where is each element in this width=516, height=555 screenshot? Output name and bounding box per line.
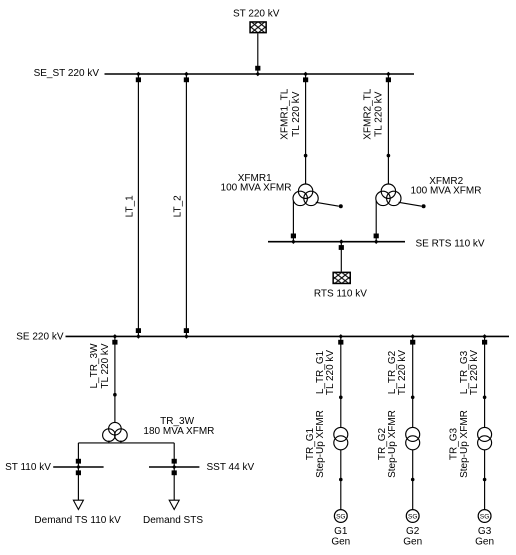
terminal square grid at SE_ST [255, 66, 260, 71]
terminal square Demand STS feeder [172, 470, 177, 475]
wire TR_3W LV/MV elbows [78, 441, 174, 468]
label TR_G1 Step-Up XFMR [305, 410, 326, 478]
svg-text:Gen: Gen [475, 537, 494, 548]
label G1 Gen [331, 526, 350, 548]
line L_TR_G1 wire [340, 336, 342, 397]
line L_TR_G3 wire [484, 336, 486, 397]
svg-text:XFMR2_TL: XFMR2_TL [362, 88, 373, 140]
svg-text:SE_ST 220 kV: SE_ST 220 kV [34, 68, 100, 79]
node grid on busbar SE_ST [256, 72, 261, 77]
svg-text:Step-Up XFMR: Step-Up XFMR [459, 410, 470, 478]
node XFMR2_TL to transformer [387, 154, 391, 158]
terminal square TR_3W at SST 44 [172, 459, 177, 464]
line LT_1 wire [137, 74, 139, 336]
line L_TR_3W wire [114, 336, 116, 394]
busbar SE 220 kV [16, 332, 509, 343]
terminal square LT_1 at SE_ST [136, 77, 141, 82]
wire to Demand STS [173, 467, 175, 500]
tertiary stub XFMR1 [316, 202, 343, 208]
busbar ST 110 kV [5, 462, 103, 473]
load Demand STS arrow [169, 500, 179, 509]
node LT_2 on SE_ST [184, 72, 189, 77]
wire to Demand TS 110 kV [77, 467, 79, 500]
node TR_G1 to G1 [339, 478, 343, 482]
svg-text:SG: SG [336, 514, 345, 521]
transformer TR_3W 180 MVA three-winding [103, 422, 128, 441]
svg-text:Demand TS 110 kV: Demand TS 110 kV [34, 515, 121, 526]
node TR_G3 to G3 [483, 478, 487, 482]
terminal square XFMR1_TL at SE_ST [303, 77, 308, 82]
wire node to generator G1 [340, 480, 342, 510]
load Demand TS 110 kV arrow [73, 500, 83, 509]
label TR_3W value [143, 416, 214, 437]
svg-text:TL 220 kV: TL 220 kV [469, 350, 480, 396]
wire XFMR1 LV to SE RTS [292, 201, 294, 242]
label G2 Gen [403, 526, 422, 548]
label TR_G3 Step-Up XFMR [449, 410, 470, 478]
node XFMR1_TL on SE_ST [303, 72, 308, 77]
external grid ST 220 kV [233, 9, 280, 33]
wire node to TR_G3 [484, 397, 486, 427]
line L_TR_G2 wire [412, 336, 414, 397]
node LT_2 on SE 220 [184, 334, 189, 339]
label L_TR_3W TL 220 kV [89, 343, 111, 389]
generator G3 SG [478, 510, 491, 523]
node L_TR_3W to TR_3W [113, 393, 117, 397]
wire TR_G1 to node [340, 450, 342, 480]
transformer TR_G1 step-up [334, 427, 348, 449]
node L_TR_G3 to TR_G3 [483, 396, 487, 400]
transformer XFMR1 100 MVA [293, 184, 318, 206]
label Demand TS 110 kV [34, 515, 121, 526]
svg-text:TL 220 kV: TL 220 kV [374, 91, 385, 137]
label XFMR1_TL TL 220 kV [280, 88, 302, 140]
node RTS feeder on SE RTS [339, 239, 344, 244]
node TR_G2 to G2 [411, 478, 415, 482]
wire TR_G3 to node [484, 450, 486, 480]
terminal square L_TR_G1 at SE 220 [338, 340, 343, 345]
label XFMR1 value [221, 173, 292, 193]
wire node to generator G3 [484, 480, 486, 510]
terminal square LT_2 at SE 220 [184, 328, 189, 333]
wire XFMR2 LV to SE RTS [375, 201, 377, 242]
line XFMR2_TL wire [387, 74, 389, 156]
svg-text:ST 220 kV: ST 220 kV [233, 9, 280, 20]
terminal square L_TR_G2 at SE 220 [410, 340, 415, 345]
svg-text:LT_2: LT_2 [173, 195, 184, 217]
line XFMR1_TL wire [305, 74, 307, 156]
transformer TR_G3 step-up [478, 427, 492, 449]
label L_TR_G1 TL 220 kV [315, 350, 336, 396]
wire node to XFMR1 [305, 156, 307, 185]
busbar SST 44 kV [149, 462, 254, 473]
svg-text:100 MVA XFMR: 100 MVA XFMR [411, 186, 482, 197]
node L_TR_G1 on SE 220 [339, 334, 344, 339]
node L_TR_3W on SE 220 [113, 334, 118, 339]
wire node to TR_3W [114, 395, 116, 423]
node LT_1 on SE 220 [136, 334, 141, 339]
node XFMR1_TL to transformer [304, 154, 308, 158]
svg-text:TL 220 kV: TL 220 kV [325, 350, 336, 396]
generator G1 SG [334, 510, 347, 523]
svg-text:TL 220 kV: TL 220 kV [100, 343, 111, 389]
node XFMR2 on SE RTS [374, 239, 379, 244]
terminal square L_TR_G3 at SE 220 [482, 340, 487, 345]
wire TR_G2 to node [412, 450, 414, 480]
svg-text:RTS 110 kV: RTS 110 kV [314, 289, 367, 300]
svg-text:G1: G1 [334, 526, 348, 537]
label L_TR_G2 TL 220 kV [387, 350, 408, 396]
generator G2 SG [406, 510, 419, 523]
terminal square XFMR1 at SE RTS [291, 234, 296, 239]
node L_TR_G2 on SE 220 [410, 334, 415, 339]
label TR_G2 Step-Up XFMR [377, 410, 398, 478]
terminal square L_TR_3W at SE 220 [112, 340, 117, 345]
terminal square Demand TS 110 kV feeder [76, 470, 81, 475]
wire grid to busbar SE_ST [257, 33, 259, 74]
node L_TR_G1 to TR_G1 [339, 396, 343, 400]
svg-text:Gen: Gen [331, 537, 350, 548]
svg-text:LT_1: LT_1 [124, 195, 135, 217]
label G3 Gen [475, 526, 494, 548]
svg-text:100 MVA XFMR: 100 MVA XFMR [221, 182, 292, 193]
node XFMR2_TL on SE_ST [386, 72, 391, 77]
external grid RTS 110 kV [314, 272, 367, 299]
svg-text:TL 220 kV: TL 220 kV [397, 350, 408, 396]
svg-text:SE 220 kV: SE 220 kV [16, 332, 64, 343]
terminal square LT_1 at SE 220 [136, 328, 141, 333]
svg-text:180 MVA XFMR: 180 MVA XFMR [143, 426, 214, 437]
svg-text:ST 110 kV: ST 110 kV [5, 462, 51, 473]
node XFMR1 on SE RTS [291, 239, 296, 244]
svg-text:SE RTS 110 kV: SE RTS 110 kV [416, 239, 485, 250]
transformer TR_G2 step-up [406, 427, 420, 449]
svg-text:Gen: Gen [403, 537, 422, 548]
terminal square RTS feeder [339, 245, 344, 250]
label Demand STS [143, 515, 203, 526]
busbar SE RTS 110 kV [268, 241, 405, 243]
node L_TR_G2 to TR_G2 [411, 396, 415, 400]
terminal square XFMR2 at SE RTS [374, 234, 379, 239]
line LT_2 wire [185, 74, 187, 336]
svg-text:G3: G3 [478, 526, 492, 537]
svg-text:SST 44 kV: SST 44 kV [207, 462, 255, 473]
svg-text:SG: SG [408, 514, 417, 521]
node TR_3W on SST 44 [172, 465, 177, 470]
svg-text:Demand STS: Demand STS [143, 515, 203, 526]
transformer XFMR2 100 MVA [376, 184, 401, 206]
node TR_3W on ST 110 [76, 465, 81, 470]
svg-text:Step-Up XFMR: Step-Up XFMR [387, 410, 398, 478]
svg-text:L_TR_3W: L_TR_3W [89, 343, 100, 389]
svg-text:TL 220 kV: TL 220 kV [291, 91, 302, 137]
node L_TR_G3 on SE 220 [482, 334, 487, 339]
terminal square XFMR2_TL at SE_ST [386, 77, 391, 82]
label LT_1 [124, 195, 135, 217]
wire SE RTS to RTS grid [340, 242, 342, 272]
terminal square TR_3W at ST 110 [76, 459, 81, 464]
busbar SE_ST 220 kV [34, 68, 414, 79]
svg-text:SG: SG [480, 514, 489, 521]
svg-text:XFMR1_TL: XFMR1_TL [280, 88, 291, 140]
wire node to XFMR2 [387, 156, 389, 185]
wire node to generator G2 [412, 480, 414, 510]
label SE RTS 110 kV [416, 239, 485, 250]
svg-text:Step-Up XFMR: Step-Up XFMR [315, 410, 326, 478]
node LT_1 on SE_ST [136, 72, 141, 77]
label LT_2 [173, 195, 184, 217]
wire node to TR_G1 [340, 397, 342, 427]
terminal square LT_2 at SE_ST [184, 77, 189, 82]
label XFMR2_TL TL 220 kV [362, 88, 384, 140]
label L_TR_G3 TL 220 kV [459, 350, 480, 396]
svg-text:G2: G2 [406, 526, 420, 537]
wire node to TR_G2 [412, 397, 414, 427]
tertiary stub XFMR2 [399, 202, 426, 208]
label XFMR2 value [411, 176, 482, 196]
